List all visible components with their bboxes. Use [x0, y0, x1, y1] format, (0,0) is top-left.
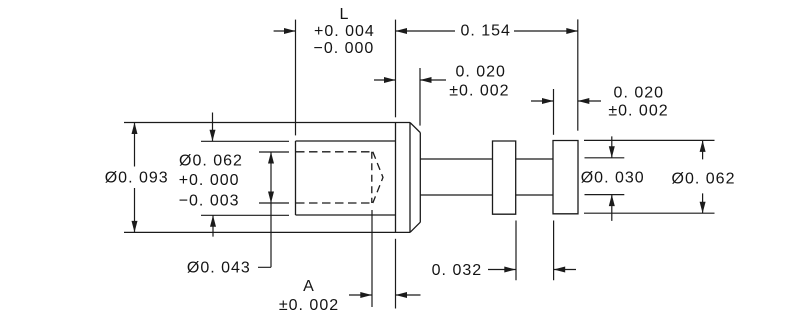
dim line 0.020 flange	[374, 79, 446, 81]
svg-text:Ø0. 030: Ø0. 030	[581, 169, 645, 186]
arrowhead dim 0.020 flange left	[384, 77, 396, 83]
arrowhead dim 0.032 right	[554, 267, 566, 273]
arrowhead dim 0.043 top	[268, 152, 274, 164]
svg-text:±0. 002: ±0. 002	[279, 297, 339, 314]
svg-text:A: A	[303, 278, 315, 295]
dim line A	[349, 294, 421, 296]
ext line flange right x=420	[419, 68, 421, 126]
dim lines Ø0.062 disc	[702, 140, 704, 213]
svg-text:0. 154: 0. 154	[460, 22, 510, 39]
shaft segment 1	[420, 159, 492, 195]
ext line L left (x=295.5)	[295, 20, 297, 136]
arrowhead dim 0.020 flange right	[420, 77, 432, 83]
arrowhead dim 0.062 bore top	[210, 130, 216, 142]
arrowhead dim 0.020 disc right	[578, 98, 590, 104]
flange left face	[395, 123, 397, 233]
ext line x=395.5 bottom	[395, 239, 397, 309]
dim line 0.020 disc	[531, 100, 601, 102]
ext lines Ø0.043	[259, 152, 289, 203]
collar ring	[493, 141, 516, 214]
shaft segment 2	[516, 159, 553, 195]
flange chamfer edges	[410, 123, 420, 233]
dim line 0.154	[396, 30, 578, 32]
svg-text:+0. 004: +0. 004	[314, 23, 375, 40]
svg-text:−0. 003: −0. 003	[179, 192, 240, 209]
dim line L	[274, 30, 296, 32]
svg-text:0. 020: 0. 020	[455, 64, 505, 81]
dim line Ø0.062 counterbore arrows	[212, 113, 215, 237]
hole bottom vertical dashed	[371, 152, 373, 203]
svg-text:Ø0. 062: Ø0. 062	[179, 153, 243, 170]
ext lines Ø0.062 counterbore	[201, 141, 289, 215]
arrowhead dim 0.093 bottom	[132, 221, 138, 233]
arrowhead dim 0.093 top	[132, 123, 138, 135]
svg-text:L: L	[340, 6, 350, 23]
svg-text:±0. 002: ±0. 002	[608, 103, 668, 120]
ext line A left x=372	[371, 210, 373, 307]
svg-text:+0. 000: +0. 000	[179, 172, 240, 189]
end disc Ø0.062	[553, 141, 578, 214]
ext line 0.154 right / 0.020 right at x=577.8	[577, 19, 579, 130]
svg-text:Ø0. 093: Ø0. 093	[105, 169, 169, 186]
drill point chevron	[373, 152, 383, 203]
arrowhead dim A left	[360, 292, 372, 298]
arrowhead dim 0.062 disc bottom	[700, 202, 706, 214]
arrowhead dim 0.032 left	[504, 267, 516, 273]
dim line 0.032	[488, 269, 576, 271]
arrowhead dim 0.030 bottom	[609, 195, 615, 207]
arrowhead dim 0.020 disc left	[542, 98, 554, 104]
dim line Ø0.093	[134, 123, 136, 233]
ext line disc left x=553.5	[553, 89, 555, 135]
arrowhead dim 0.154 left	[396, 28, 408, 34]
svg-text:±0. 002: ±0. 002	[449, 83, 509, 100]
arrowhead dim 0.043 bottom	[268, 192, 274, 204]
svg-text:0. 032: 0. 032	[432, 262, 482, 279]
arrowhead dim L	[284, 28, 296, 34]
ext lines Ø0.062 disc right	[584, 140, 715, 213]
counterbore Ø0.062 solid walls	[296, 141, 396, 215]
dim leader Ø0.043	[258, 152, 271, 267]
arrowhead dim 0.062 bore bottom	[210, 215, 216, 227]
svg-text:Ø0. 062: Ø0. 062	[672, 171, 736, 188]
svg-text:Ø0. 043: Ø0. 043	[187, 259, 251, 276]
arrowhead dim 0.062 disc top	[700, 140, 706, 152]
arrowhead dim 0.030 top	[609, 146, 615, 158]
ext lines 0.032	[516, 221, 554, 281]
svg-text:−0. 000: −0. 000	[314, 40, 375, 57]
hidden hole dashed bottom	[296, 202, 372, 204]
arrowhead dim A right	[396, 292, 408, 298]
dim lines Ø0.030	[611, 136, 613, 221]
hidden hole Ø0.043 dashed top	[296, 151, 372, 153]
svg-text:0. 020: 0. 020	[614, 85, 664, 102]
arrowhead dim 0.154 right	[566, 28, 578, 34]
body outline Ø0.093 barrel	[124, 123, 410, 233]
ext lines Ø0.030	[585, 158, 625, 195]
ext line shared at x=395.5 top	[395, 20, 397, 118]
